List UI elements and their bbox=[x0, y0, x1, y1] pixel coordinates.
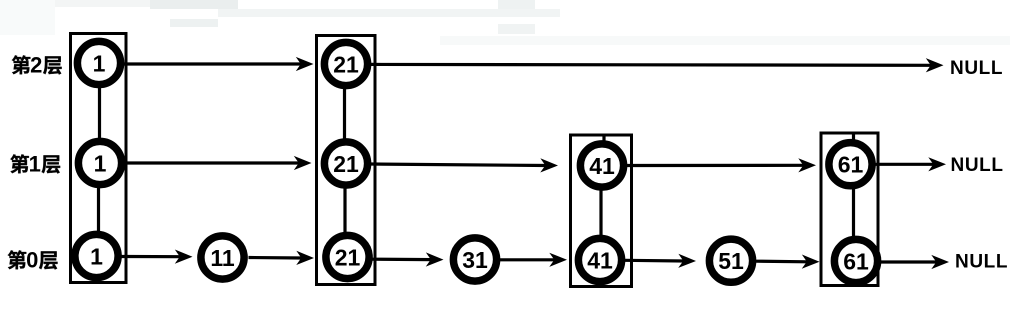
svg-text:21: 21 bbox=[333, 151, 359, 177]
svg-text:41: 41 bbox=[587, 247, 613, 273]
svg-text:11: 11 bbox=[210, 245, 235, 271]
svg-text:21: 21 bbox=[335, 244, 361, 270]
svg-text:51: 51 bbox=[718, 248, 744, 274]
svg-text:2: 2 bbox=[30, 53, 42, 78]
svg-text:21: 21 bbox=[333, 51, 359, 77]
svg-text:1: 1 bbox=[90, 243, 103, 269]
svg-text:61: 61 bbox=[838, 152, 864, 178]
svg-text:NULL: NULL bbox=[955, 252, 1008, 273]
svg-text:61: 61 bbox=[843, 248, 869, 274]
svg-text:NULL: NULL bbox=[951, 155, 1004, 176]
svg-text:1: 1 bbox=[94, 150, 107, 176]
svg-text:41: 41 bbox=[589, 153, 615, 179]
svg-text:1: 1 bbox=[93, 50, 106, 76]
svg-text:31: 31 bbox=[462, 247, 488, 273]
svg-text:1: 1 bbox=[29, 152, 41, 177]
svg-text:0: 0 bbox=[26, 248, 38, 273]
svg-text:NULL: NULL bbox=[950, 58, 1003, 79]
